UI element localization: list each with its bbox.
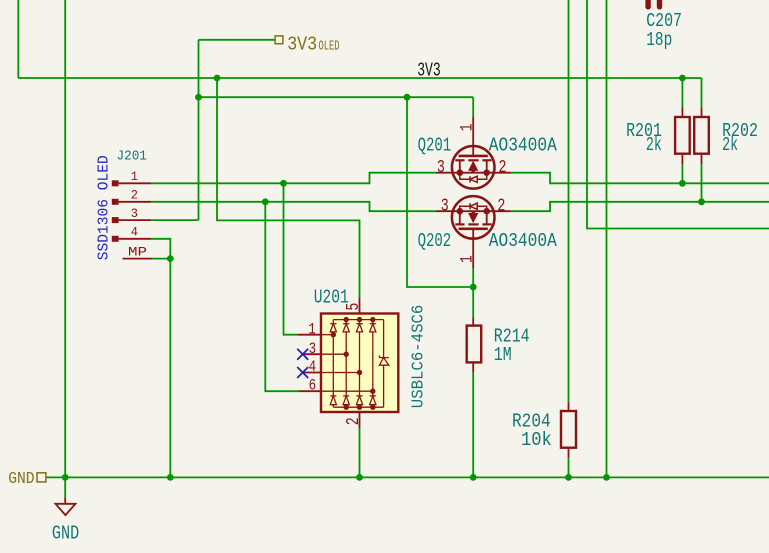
internals: [321, 320, 389, 408]
svg-text:J201: J201: [117, 148, 147, 164]
wire: J201 pin1 to Q201 gate: [151, 173, 436, 184]
column 2: [345, 320, 347, 324]
body diode loop: [460, 203, 487, 211]
resistor R201: [675, 107, 690, 164]
pin stub connections: [321, 334, 333, 336]
junction (701.5,201.8): [698, 198, 705, 205]
junction (198.5,97.2): [195, 94, 202, 101]
wire: vertical x=606.5 to GND bus: [606, 0, 608, 477]
wire: J201 pin2 to Q202 gate: [151, 202, 436, 211]
wire: left tall vertical to GND bus: [64, 0, 66, 477]
transistor Q201 AO3400A: [436, 117, 511, 189]
svg-text:3: 3: [131, 206, 138, 221]
wire: R201 top drop: [681, 78, 683, 107]
junction (407,97.2): [404, 94, 411, 101]
wire: GND bus horizontal: [46, 476, 769, 478]
svg-text:10k: 10k: [521, 429, 552, 451]
wire: U201 pin2 to GND bus: [359, 429, 361, 478]
wire: 3V3OLED vertical to J201 pin3: [198, 40, 200, 220]
gate bar: [459, 155, 488, 158]
transistor Q202 AO3400A: [436, 196, 511, 268]
pin 3: [303, 353, 321, 355]
connector J201: [112, 169, 152, 259]
body: [321, 314, 398, 413]
no-connect X pin 4: [297, 367, 308, 378]
pin 5 (top): [359, 297, 361, 313]
junction (473.2,477.4): [470, 474, 477, 481]
ground symbol: [56, 497, 76, 515]
svg-text:USBLC6-4SC6: USBLC6-4SC6: [409, 305, 428, 409]
pin 3: [112, 217, 119, 223]
junction (359.5,477.4): [356, 474, 363, 481]
channel dashes: [455, 223, 491, 225]
pin 1 (top): [472, 117, 474, 156]
svg-text:1: 1: [131, 169, 138, 184]
wire: gate net horizontal y=97: [199, 96, 474, 98]
resistor R214: [467, 317, 482, 372]
channel dashes: [455, 159, 491, 161]
wire: Q202 drain bottom to R214: [472, 268, 474, 317]
wire: R202 top drop: [701, 78, 703, 107]
svg-text:2: 2: [497, 196, 505, 216]
right zener branch: [383, 320, 385, 358]
drain/source verticals: [459, 160, 461, 172]
svg-text:3: 3: [309, 340, 317, 358]
internal junction dots: [457, 208, 464, 215]
junction (473.2,287): [470, 284, 477, 291]
svg-text:Q201: Q201: [418, 135, 452, 157]
hierarchical label 3V3OLED: [275, 34, 339, 56]
svg-text:SSD1306 OLED: SSD1306 OLED: [97, 155, 113, 260]
internal junction dots: [331, 317, 376, 410]
pin 1: [298, 334, 321, 336]
wire: J201 pin1 branch down to U201 pin1: [284, 183, 299, 334]
no-connect X pin 3: [297, 349, 308, 360]
junction (170.3,477.4): [167, 474, 174, 481]
gate bar: [459, 228, 488, 231]
junction (65.2,477.4): [62, 474, 69, 481]
wire: 3V3OLED label horizontal: [199, 39, 276, 41]
wire: Q201 source right jog to edge: [511, 173, 769, 184]
wire: R201 bottom to net: [681, 164, 683, 183]
pin MP: [123, 258, 153, 260]
bottom rail: [333, 406, 383, 408]
pin 1: [112, 180, 119, 186]
svg-text:OLED: OLED: [319, 38, 340, 54]
wire: J201 pin3 stub: [151, 219, 198, 221]
junction (568.5,477.4): [565, 474, 572, 481]
wire: J201 pin4 down to MP junction: [151, 239, 170, 478]
column 3: [359, 320, 361, 324]
column 1: [332, 320, 334, 324]
junction (217,78): [214, 75, 221, 82]
pin 6: [300, 390, 322, 392]
svg-text:4: 4: [309, 358, 317, 376]
wire: 3V3 riser top-left: [17, 0, 19, 78]
pin3-pin2 horizontal line: [436, 172, 511, 174]
svg-text:6: 6: [309, 377, 317, 395]
svg-text:3V3: 3V3: [287, 34, 317, 56]
svg-text:Q202: Q202: [418, 230, 452, 252]
svg-text:3: 3: [437, 158, 445, 178]
wire: J201 pin2 branch down to U201 pin6: [265, 202, 299, 391]
svg-text:GND: GND: [8, 469, 34, 488]
wire: MP stub: [152, 258, 170, 260]
wire: vertical x=587 turning right at y=228.5: [587, 0, 769, 229]
drain/source verticals: [459, 211, 461, 224]
pin 1 (bottom): [472, 229, 474, 268]
svg-text:2: 2: [131, 188, 138, 203]
svg-text:3V3: 3V3: [417, 60, 441, 82]
body arrow: [469, 211, 478, 222]
svg-text:MP: MP: [128, 244, 147, 259]
pin 2 (bottom): [359, 412, 361, 429]
junction (606.5,477.4): [603, 474, 610, 481]
junction (170.3,258.6): [167, 255, 174, 262]
svg-text:18p: 18p: [646, 29, 672, 51]
wire: 3V3 horizontal bus: [18, 77, 701, 79]
wire: vertical x=568.7 to R204: [568, 0, 570, 402]
pin 4: [303, 372, 321, 374]
body arrow: [469, 162, 478, 173]
internal junction dots: [457, 169, 464, 176]
resistor R202: [694, 107, 709, 164]
svg-text:U201: U201: [314, 286, 349, 308]
capacitor C207 (plates cut at top): [648, 0, 659, 7]
junction (682.4,183.3): [679, 180, 686, 187]
svg-text:3: 3: [441, 196, 449, 216]
svg-text:2: 2: [499, 158, 507, 178]
svg-text:2k: 2k: [646, 134, 662, 156]
wire: 3V3 drop at x=217 to U201 pin5: [217, 78, 360, 297]
wire: R202 bottom to net: [701, 164, 703, 202]
junction (682.4,78): [679, 75, 686, 82]
pin 2: [112, 199, 119, 205]
svg-text:AO3400A: AO3400A: [489, 230, 557, 252]
junction (283.5,183.3): [280, 180, 287, 187]
wire: vertical x=407 gate net to bottom: [407, 97, 473, 287]
svg-text:1: 1: [458, 123, 478, 131]
svg-text:AO3400A: AO3400A: [489, 135, 557, 157]
svg-text:1M: 1M: [494, 344, 512, 366]
pin3-pin2 horizontal line: [436, 210, 511, 212]
IC U201 USBLC6-4SC6: [298, 297, 398, 428]
resistor R204: [561, 402, 576, 458]
wire: R204 bottom to GND bus: [568, 458, 570, 478]
wire: R214 bottom to GND bus: [472, 372, 474, 477]
wire: Q202 source right jog to edge: [511, 202, 769, 211]
column 4: [372, 320, 374, 324]
svg-text:1: 1: [458, 255, 478, 263]
svg-text:2: 2: [344, 417, 364, 425]
top rail: [333, 319, 383, 321]
svg-text:4: 4: [131, 225, 138, 240]
pin 4: [112, 236, 119, 242]
svg-text:1: 1: [308, 320, 316, 338]
wire: GND bus to ground symbol: [64, 477, 66, 497]
body diode loop: [460, 173, 487, 183]
hierarchical label GND: [8, 469, 46, 488]
svg-text:2k: 2k: [722, 134, 738, 156]
svg-text:GND: GND: [52, 523, 79, 545]
junction (265.3,201.8): [262, 198, 269, 205]
wire: gate net down to Q201 pin1: [472, 97, 474, 117]
